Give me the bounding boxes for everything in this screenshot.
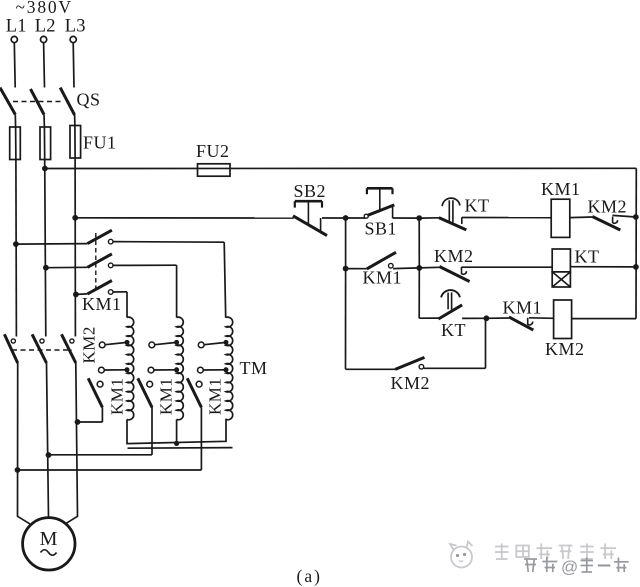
svg-text:(a): (a) xyxy=(297,566,322,586)
label KM1 (upper contacts) xyxy=(82,294,122,314)
wire node B down to node D xyxy=(418,218,420,268)
autotransformer TM coil 3 xyxy=(226,317,233,420)
label KT (coil) xyxy=(575,247,600,267)
label KM1 (row 3) xyxy=(503,298,543,318)
node L3-KM1 branch junction xyxy=(73,292,79,298)
wire TM star bus lower line xyxy=(128,447,233,450)
contact KM2 (NO, bottom row) xyxy=(395,357,485,369)
contact KM2 (NC interlock, row 1) xyxy=(570,215,636,230)
contact KM1 (NC interlock, row 3) xyxy=(486,317,553,330)
contactor KM1 start pole C xyxy=(76,281,127,295)
label KM1 (coil2, vertical) xyxy=(157,378,176,415)
fuse FU1 pole 3 xyxy=(70,126,81,159)
node L3 motor-wire junction xyxy=(75,419,81,425)
label SB1 xyxy=(365,219,398,239)
node D xyxy=(416,265,422,271)
label KM2 (row 1) xyxy=(588,197,628,217)
svg-text:KM2: KM2 xyxy=(588,197,628,217)
contactor KM1 start pole A xyxy=(16,230,224,244)
svg-text:KM2: KM2 xyxy=(545,339,585,359)
wire TM star bus xyxy=(127,419,226,444)
label ~380V xyxy=(16,0,73,17)
node E xyxy=(484,315,490,321)
svg-text:KT: KT xyxy=(441,320,466,340)
autotransformer TM coil 2 xyxy=(177,317,184,420)
taps and contactor KM1 run pole 1 xyxy=(88,340,129,408)
wire L3 KM2 to motor xyxy=(65,363,77,524)
watermark text (toutiao @ benyidai) xyxy=(524,557,629,577)
label KM1 (coil) xyxy=(541,179,581,199)
node L2-FU2 junction xyxy=(42,166,48,172)
node L1 motor-wire junction xyxy=(15,467,21,473)
node L3-control junction xyxy=(72,215,78,221)
wire node C down to KM2 contact xyxy=(346,269,396,370)
taps and contactor KM1 run pole 2 xyxy=(138,340,179,408)
fuse FU1 pole 1 xyxy=(10,127,21,160)
svg-text:SB1: SB1 xyxy=(365,219,398,239)
wire L3 terminal to QS xyxy=(72,42,75,87)
node L1-KM1 branch junction xyxy=(13,241,19,247)
wire L3 FU1 to KM2 contact xyxy=(74,158,76,337)
wire drop to coil 2 xyxy=(176,265,178,317)
label (a) xyxy=(297,566,322,586)
node right rail row 2 xyxy=(633,264,639,270)
switch QS pole 2 blade xyxy=(31,89,45,115)
contact KM1 (self-holding, NO) xyxy=(346,252,420,269)
svg-text:KM1: KM1 xyxy=(108,378,127,415)
wire KM1 pole1 to L3 lead xyxy=(78,407,103,422)
svg-text:FU2: FU2 xyxy=(196,141,230,161)
svg-text:TM: TM xyxy=(240,358,268,378)
wire L1 QS to FU1 xyxy=(14,115,16,128)
node right rail row 1 xyxy=(633,214,639,220)
wire SB2 to node A xyxy=(322,217,346,219)
wire FU2 feed line xyxy=(45,167,636,169)
switch QS pole 3 blade xyxy=(60,88,74,115)
time relay contact KT (NO, delayed closing) xyxy=(419,290,486,319)
svg-text:M: M xyxy=(40,528,58,550)
wire L2 terminal to QS xyxy=(43,42,46,87)
node C xyxy=(343,266,349,272)
contactor KM2 main pole 3 xyxy=(62,334,76,363)
terminal L1 xyxy=(6,17,27,43)
time relay contact KT (NC, delayed opening) xyxy=(419,198,551,230)
label KM2 (row 2) xyxy=(434,246,474,266)
label KM2 (main, vertical) xyxy=(80,326,99,363)
wire L2 QS to FU1 xyxy=(43,115,45,128)
label KM1 (coil3, vertical) xyxy=(206,378,225,415)
svg-text:KM1: KM1 xyxy=(363,268,403,288)
label SB2 xyxy=(294,181,327,201)
wire L2 FU1 to KM2 contact xyxy=(45,160,46,337)
label KT (row 1) xyxy=(465,196,490,216)
svg-text:KT: KT xyxy=(575,247,600,267)
wire L1 KM2 to motor xyxy=(18,363,30,524)
svg-text:FU1: FU1 xyxy=(83,133,117,153)
wire node A down xyxy=(345,218,347,269)
terminal L3 xyxy=(65,17,86,43)
wire KM1 pole2 to L2 lead xyxy=(49,406,153,455)
autotransformer TM coil 1 xyxy=(127,317,134,420)
motor M xyxy=(23,518,75,570)
wire KM2 coil to right rail xyxy=(572,318,636,320)
coil KM2 xyxy=(554,300,572,339)
wire KM2 contact up to node E xyxy=(485,318,487,368)
contactor KM1 start pole B xyxy=(46,254,177,268)
wire control feed from L3 xyxy=(75,217,294,219)
svg-text:KM2: KM2 xyxy=(80,326,99,363)
svg-text:~380V: ~380V xyxy=(16,0,73,17)
svg-text:QS: QS xyxy=(77,90,101,110)
fuse FU1 pole 2 xyxy=(40,127,51,160)
svg-text:L1: L1 xyxy=(6,17,27,37)
svg-text:L2: L2 xyxy=(35,17,56,37)
wire L3 QS to FU1 xyxy=(74,115,76,126)
svg-text:KM2: KM2 xyxy=(434,246,474,266)
svg-text:KM1: KM1 xyxy=(541,179,581,199)
label KM1 (coil1, vertical) xyxy=(108,378,127,415)
pushbutton SB1 (start, NO) xyxy=(346,188,420,218)
contactor KM2 linkage dashed line xyxy=(12,349,72,351)
wire node D down to row 3 xyxy=(418,268,420,318)
svg-text:KM2: KM2 xyxy=(391,373,431,393)
contact KM2 (NC, row 2) xyxy=(419,267,552,282)
label TM xyxy=(240,358,268,378)
fuse FU2 xyxy=(198,164,231,176)
wire L1 FU1 to KM2 contact xyxy=(15,160,18,337)
label KM2 (coil) xyxy=(545,339,585,359)
watermark logo and text (quanqiu dianqi ziyuan) xyxy=(450,542,616,568)
wire drop to coil 3 xyxy=(224,242,226,318)
coil KM1 xyxy=(551,199,570,237)
node A xyxy=(343,215,349,221)
wire KM1 pole3 to L1 lead xyxy=(18,407,202,470)
label KT (row 3) xyxy=(441,320,466,340)
svg-text:KM1: KM1 xyxy=(206,378,225,415)
label FU2 xyxy=(196,141,230,161)
switch QS linkage dashed line xyxy=(13,101,63,103)
node L2-KM1 branch junction xyxy=(43,265,49,271)
svg-text:KM1: KM1 xyxy=(82,294,122,314)
node B xyxy=(416,215,422,221)
contactor KM2 main pole 2 xyxy=(32,334,46,363)
svg-text:KM1: KM1 xyxy=(503,298,543,318)
svg-text:KM1: KM1 xyxy=(157,378,176,415)
wire L2 KM2 to motor xyxy=(47,363,49,517)
svg-text:SB2: SB2 xyxy=(294,181,327,201)
pushbutton SB2 (stop, NC) xyxy=(293,201,327,235)
contactor KM2 main pole 1 xyxy=(4,334,17,363)
label KM1 (self-holding) xyxy=(363,268,403,288)
taps and contactor KM1 run pole 3 xyxy=(187,340,228,408)
label KM2 (bottom contact) xyxy=(391,373,431,393)
wire drop to coil 1 xyxy=(126,292,128,318)
wire right rail xyxy=(635,168,637,318)
coil KT (time relay) xyxy=(552,249,570,287)
node TM star point xyxy=(174,441,179,446)
svg-text:@: @ xyxy=(561,558,578,577)
wire L1 terminal to QS xyxy=(13,42,16,87)
wire KT coil to right rail xyxy=(570,266,636,268)
switch QS pole 1 blade xyxy=(0,88,15,115)
label FU1 xyxy=(83,133,117,153)
svg-text:L3: L3 xyxy=(65,17,86,37)
contactor KM1 linkage dashed line xyxy=(95,233,97,291)
svg-text:KT: KT xyxy=(465,196,490,216)
node L2 motor-wire junction xyxy=(46,452,52,458)
label QS xyxy=(77,90,101,110)
terminal L2 xyxy=(35,17,56,43)
